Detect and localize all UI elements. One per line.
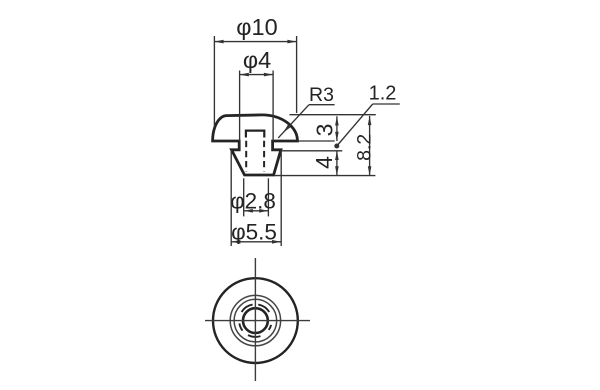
svg-text:φ2.8: φ2.8 [230,189,276,214]
svg-text:8.2: 8.2 [354,134,376,161]
extension line stem bottom [274,175,376,177]
broken circle phi4 neck [258,305,269,312]
svg-text:φ4: φ4 [243,47,271,73]
dim phi2.8 extension lines [243,178,245,216]
dim phi10 extension lines [213,36,215,127]
horizontal centerline [205,320,310,322]
dim phi2.8 line [244,210,269,212]
svg-text:φ10: φ10 [236,14,277,40]
svg-text:φ5.5: φ5.5 [231,219,277,244]
vertical centerline [254,258,256,381]
dim 3 line [336,116,338,141]
svg-text:R3: R3 [309,84,334,106]
hidden hole top edge [246,131,264,138]
dim 8.2 line [369,116,371,176]
hidden hole left dashed line [245,141,247,172]
extension line head bottom [298,140,335,142]
leader 1.2 with dot [373,103,400,105]
grommet body outline [213,115,298,175]
extension line head top [290,114,376,116]
dim phi4 line [240,74,274,76]
svg-text:3: 3 [312,124,338,137]
circle stem bottom [234,299,277,342]
dim phi4 extension lines [239,71,241,142]
extension line neck step [281,150,342,152]
bottom view: outer circle phi10 [213,278,298,363]
svg-text:4: 4 [311,156,337,169]
hole circle phi2.8 [243,308,268,333]
circle phi5.5 flange [230,295,280,345]
svg-text:1.2: 1.2 [369,83,397,105]
dim phi5.5 extension lines [230,151,232,247]
dim phi5.5 line [231,241,281,243]
dim phi10 line [214,41,296,43]
dim 4 line [336,151,338,176]
leader R3 [309,104,335,106]
hidden hole right dashed line [263,141,265,172]
